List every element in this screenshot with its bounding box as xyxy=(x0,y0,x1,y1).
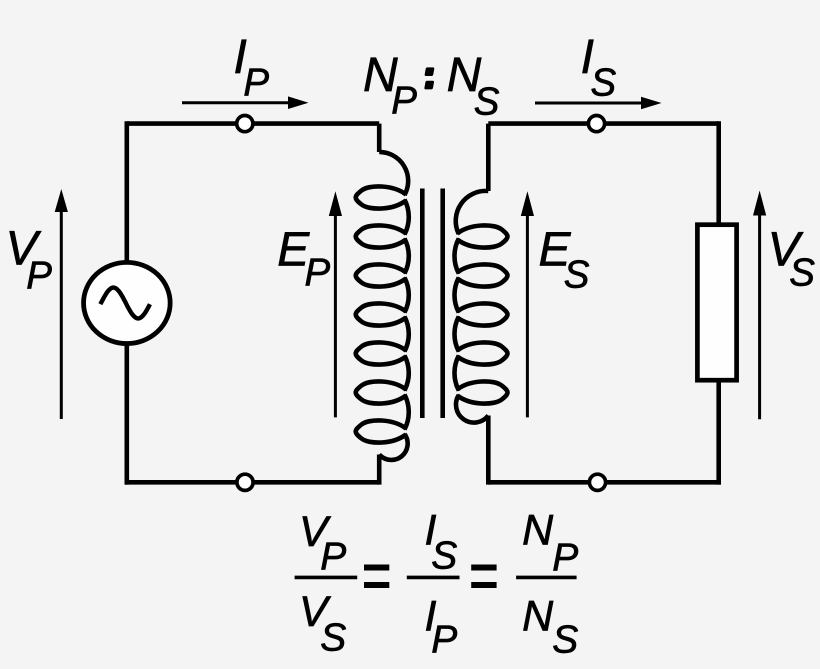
arrow Is current xyxy=(535,102,642,105)
svg-text:P: P xyxy=(305,252,331,295)
svg-text:S: S xyxy=(789,252,815,295)
secondary winding top arc xyxy=(456,191,489,234)
svg-text:S: S xyxy=(552,619,578,662)
primary winding turn 7 xyxy=(356,420,406,442)
svg-text:S: S xyxy=(564,253,590,296)
wire top-right rail xyxy=(488,121,718,126)
secondary winding turn 5 xyxy=(457,381,507,403)
primary winding bottom arc xyxy=(379,434,407,460)
svg-text:S: S xyxy=(320,617,346,660)
transformer core line right xyxy=(440,189,445,419)
node bottom-right terminal xyxy=(589,474,605,490)
primary winding lead top xyxy=(377,124,382,152)
arrow Ep voltage xyxy=(334,215,337,417)
primary winding link 5 xyxy=(405,356,409,391)
secondary winding turn 1 xyxy=(457,225,507,247)
AC source sine wave xyxy=(100,288,149,319)
secondary winding link 3 xyxy=(454,317,458,352)
primary winding turn 3 xyxy=(356,264,406,286)
primary winding turn 5 xyxy=(356,342,406,364)
secondary winding bottom arc xyxy=(456,395,488,423)
primary winding link 3 xyxy=(405,278,409,313)
primary winding lead bottom xyxy=(377,455,382,485)
svg-text:P: P xyxy=(243,62,269,105)
svg-text:P: P xyxy=(320,536,346,579)
primary winding turn 4 xyxy=(356,303,406,325)
primary winding turn 1 xyxy=(356,186,406,208)
primary winding link 4 xyxy=(405,317,409,352)
AC source V1 circle xyxy=(84,262,171,343)
svg-text:N: N xyxy=(522,506,554,554)
secondary winding turn 4 xyxy=(457,342,507,364)
label ratio colon xyxy=(422,67,437,89)
wire left rail lower xyxy=(125,344,130,485)
fraction bar 1 xyxy=(295,576,358,580)
secondary winding turn 2 xyxy=(457,264,507,286)
arrow Es voltage xyxy=(526,215,529,417)
transformer core line left xyxy=(420,189,425,419)
primary winding turn 2 xyxy=(356,225,406,247)
fraction bar 2 xyxy=(407,576,460,580)
resistor R load xyxy=(697,225,736,381)
svg-text:N: N xyxy=(522,592,554,640)
fraction bar 3 xyxy=(516,576,577,580)
arrow Vp voltage xyxy=(60,211,63,419)
equals sign 1 xyxy=(364,568,389,586)
wire right rail upper xyxy=(716,121,721,224)
arrow Ip current xyxy=(182,101,289,104)
secondary winding link 2 xyxy=(454,278,458,313)
wire bottom-left rail xyxy=(125,480,380,485)
svg-text:P: P xyxy=(26,254,52,297)
wire right rail lower xyxy=(716,380,721,485)
svg-text:S: S xyxy=(474,80,500,123)
secondary winding turn 3 xyxy=(457,303,507,325)
primary winding turn 6 xyxy=(356,381,406,403)
wire bottom-right rail xyxy=(488,480,721,485)
primary winding link 1 xyxy=(405,200,409,235)
svg-text:P: P xyxy=(391,79,417,122)
equals sign 2 xyxy=(471,568,496,586)
svg-text:S: S xyxy=(591,62,617,105)
node top-left terminal xyxy=(237,116,253,132)
node bottom-left terminal xyxy=(237,474,253,490)
svg-text:P: P xyxy=(552,537,578,580)
secondary winding lead bottom xyxy=(486,416,491,485)
secondary winding link 4 xyxy=(454,356,458,391)
primary winding link 2 xyxy=(405,239,409,274)
svg-text:S: S xyxy=(431,535,457,578)
secondary winding lead top xyxy=(486,124,491,191)
svg-text:P: P xyxy=(431,619,457,662)
primary winding link 6 xyxy=(405,395,409,430)
arrow Vs voltage xyxy=(758,215,761,420)
wire left rail upper xyxy=(125,121,130,262)
wire top-left rail xyxy=(127,121,379,126)
secondary winding link 1 xyxy=(454,239,458,274)
primary winding top arc xyxy=(379,152,408,195)
node top-right terminal xyxy=(588,116,604,132)
